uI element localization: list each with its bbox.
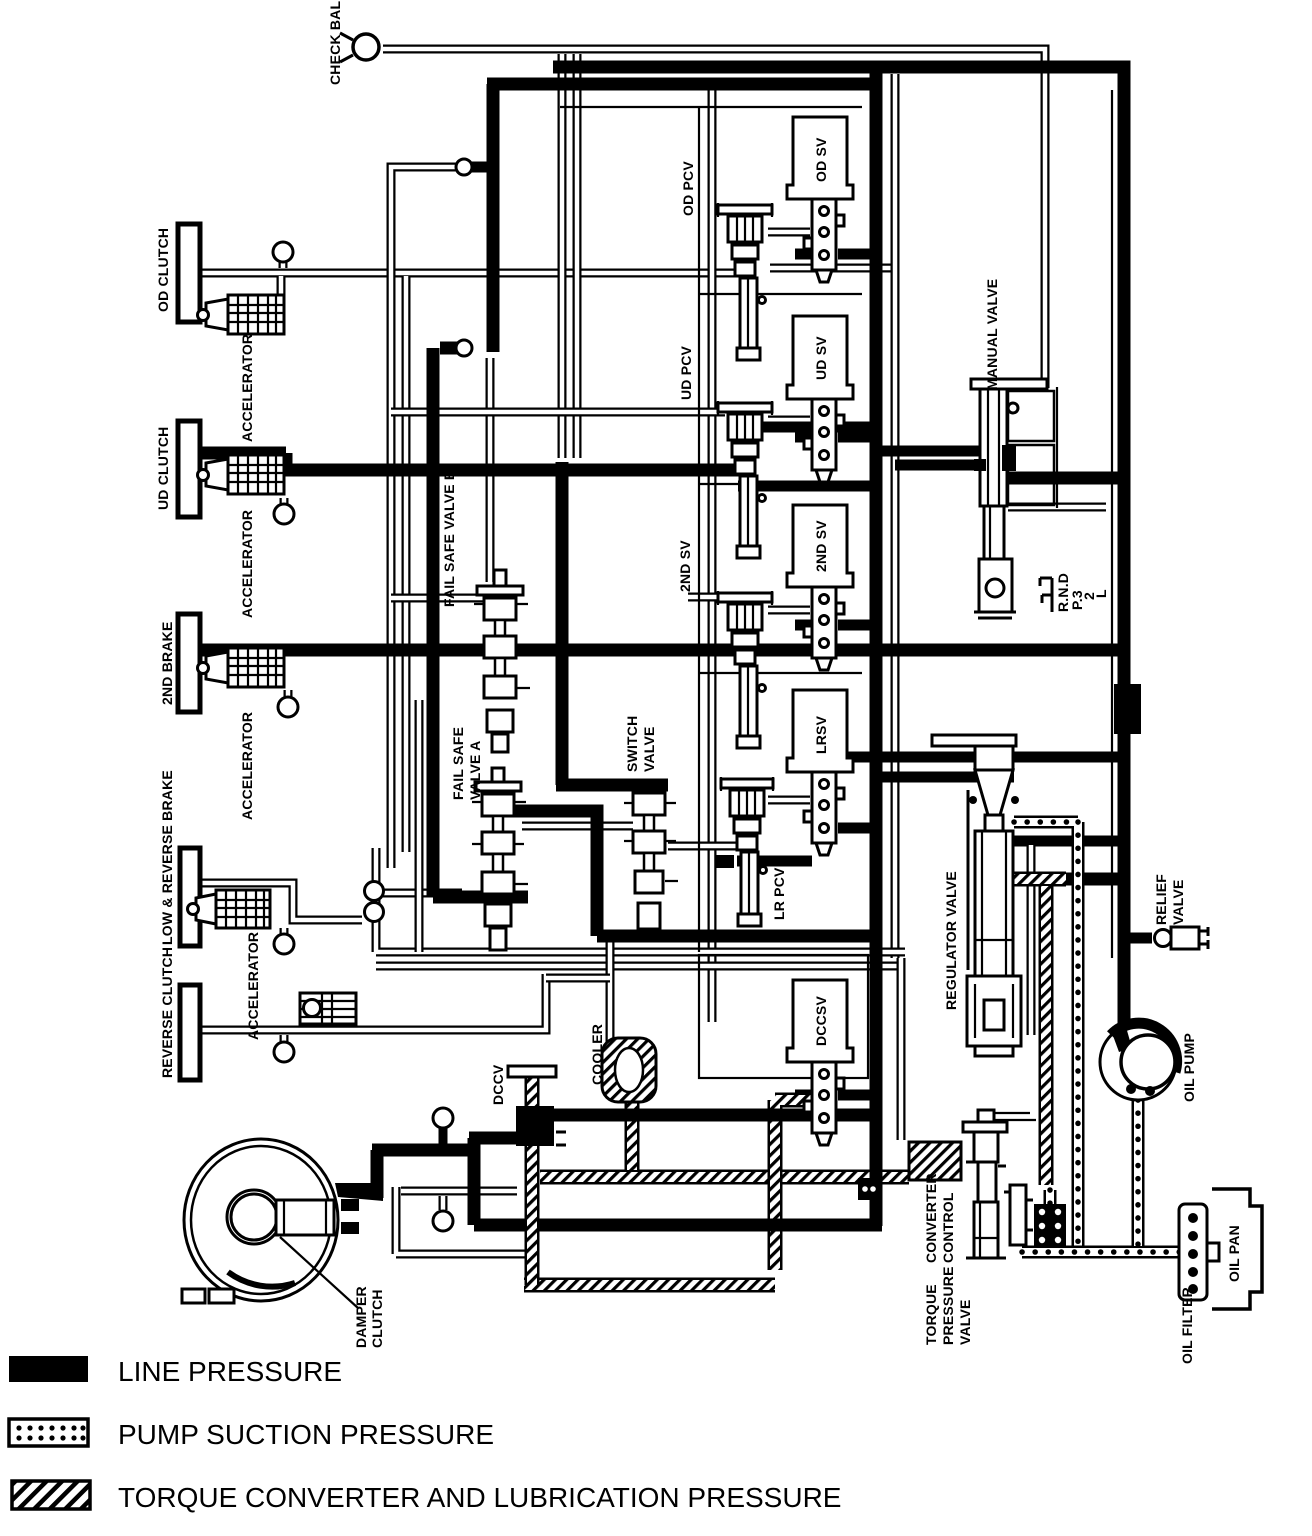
wire: channel down to converter control <box>897 958 906 1140</box>
dotted channel: converter control drop <box>1044 1190 1057 1246</box>
wire: relief valve stub <box>1124 933 1152 944</box>
wire: channel below junction ball 2 <box>486 358 495 582</box>
2ND SV solenoid <box>787 505 853 670</box>
accumulator reverse (small) <box>300 993 356 1024</box>
wire: valve region bottom second <box>376 962 905 971</box>
svg-text:CHECK BALL: CHECK BALL <box>327 0 343 85</box>
wire: line pressure top run T1 with right border drop <box>553 67 1124 1030</box>
wire: 2ND PCV to 2ND SV link <box>768 606 810 615</box>
low-reverse brake bar <box>180 848 200 946</box>
wire: extra vertical channel <box>415 700 424 952</box>
hatched channel: cooler link <box>625 1102 640 1170</box>
wire: low-reverse to fail safe A <box>383 889 462 898</box>
wire: UD PCV feed channel <box>391 408 725 417</box>
wire: manual valve lower right channel <box>1008 503 1106 512</box>
hatched channel: main lubrication run <box>540 1170 909 1185</box>
svg-text:CLUTCH: CLUTCH <box>369 1289 385 1348</box>
wire: manual valve region left wall <box>891 74 900 958</box>
wire: DCCSV plunger stubs <box>795 1090 876 1101</box>
regulator valve <box>932 735 1021 1056</box>
wire: manual valve lower feed <box>895 460 985 471</box>
relief valve <box>1155 927 1209 949</box>
legend swatch pump suction <box>9 1419 88 1446</box>
OD clutch bar <box>178 224 200 322</box>
svg-text:REGULATOR VALVE: REGULATOR VALVE <box>943 871 959 1010</box>
legend swatch line pressure <box>9 1356 88 1382</box>
svg-text:CONTROL: CONTROL <box>940 1192 956 1263</box>
svg-text:2ND BRAKE: 2ND BRAKE <box>159 622 175 705</box>
wire: UD clutch line pressure stub <box>200 453 286 464</box>
junction ball 2 <box>456 340 472 356</box>
svg-text:FAIL SAFE VALVE B: FAIL SAFE VALVE B <box>441 470 457 607</box>
svg-text:TORQUE: TORQUE <box>923 1284 939 1345</box>
LRSV solenoid <box>787 690 853 855</box>
wire: regulator to right border <box>1012 836 1124 847</box>
dotted channel: regulator suction <box>1014 822 1078 1246</box>
hatched box: converter control feed <box>909 1142 961 1180</box>
junction ball 1 <box>456 159 472 175</box>
hatched channel: regulator drop <box>1039 886 1054 1185</box>
wire: LR PCV to LRSV link <box>768 796 810 805</box>
UD SV solenoid <box>787 316 853 482</box>
svg-text:OD SV: OD SV <box>813 137 829 182</box>
oil pan <box>1212 1189 1262 1309</box>
svg-text:OIL PUMP: OIL PUMP <box>1181 1033 1197 1102</box>
accumulator low-reverse <box>188 890 271 928</box>
hatched channel: regulator cross <box>1014 872 1066 887</box>
wire: channel down to cooler <box>606 942 615 1050</box>
svg-text:REVERSE CLUTCH: REVERSE CLUTCH <box>159 947 175 1078</box>
hatched channel: bottom run <box>524 1278 775 1293</box>
wire: LR PCV to LRSV line <box>737 856 812 867</box>
wire: check-ball thin channel to manual valve <box>383 49 1045 388</box>
wire: UD PCV to mid line <box>738 481 876 492</box>
ball below converter channel <box>433 1196 453 1231</box>
svg-text:MANUAL VALVE: MANUAL VALVE <box>984 279 1000 390</box>
legend swatch torque converter <box>12 1481 90 1509</box>
svg-text:RELIEF: RELIEF <box>1153 874 1169 925</box>
svg-text:OD PCV: OD PCV <box>680 161 696 216</box>
hatched channel: vertical riser <box>775 1100 822 1270</box>
fail safe valve B <box>474 570 530 752</box>
svg-text:ACCELERATOR: ACCELERATOR <box>239 510 255 618</box>
wire: vertical channel pair B <box>573 54 582 458</box>
wire: 2ND SV plunger stubs <box>795 620 876 631</box>
svg-text:PRESSURE: PRESSURE <box>940 1266 956 1345</box>
wire: check ball junction elbow <box>440 342 470 355</box>
wire: UD clutch line pressure main <box>280 464 742 477</box>
wire: UD PCV to manual valve line <box>760 422 876 433</box>
switch valve <box>624 793 678 929</box>
ball pair low-reverse junction <box>365 882 384 922</box>
wire: 2ND brake line pressure <box>200 644 1124 657</box>
accumulator UD <box>198 455 285 494</box>
valve body group frame <box>560 107 868 1078</box>
2ND PCV <box>718 591 772 748</box>
wire: valve region frame left and bottom <box>376 848 905 952</box>
ball converter line <box>433 1108 453 1148</box>
dotted channel: pump drop <box>1132 1100 1145 1246</box>
wire: UD SV plunger stubs <box>795 432 876 443</box>
wire: bottom return line pressure <box>474 1219 882 1232</box>
UD PCV <box>718 401 772 558</box>
wire: UD PCV to UD SV link <box>768 416 810 425</box>
fail safe valve A <box>472 768 528 950</box>
check ball <box>340 33 379 62</box>
wire: manual valve to right border <box>1005 472 1124 485</box>
svg-text:FAIL SAFE: FAIL SAFE <box>450 727 466 800</box>
line pressure overprint at hatch crossings <box>618 1115 876 1226</box>
wire: ball1 elbow <box>470 162 491 173</box>
manual valve <box>971 379 1057 618</box>
wire: OD SV plunger stubs <box>795 249 876 260</box>
oil pump <box>1100 1023 1177 1100</box>
svg-text:UD CLUTCH: UD CLUTCH <box>155 427 171 510</box>
dotted channel: oil pan suction <box>1022 1246 1184 1259</box>
svg-text:L: L <box>1093 589 1109 598</box>
DCCSV solenoid <box>787 980 853 1145</box>
svg-text:OIL FILTER: OIL FILTER <box>1179 1287 1195 1364</box>
ball 2ND accumulator <box>278 690 298 717</box>
2ND brake bar <box>178 614 200 712</box>
DCCV valve <box>508 1066 566 1146</box>
wire: regulator sleeve channel <box>1027 845 1036 1035</box>
svg-text:DAMPER: DAMPER <box>353 1286 369 1348</box>
wire: regulator top feed <box>876 772 1014 783</box>
wire: reverse clutch channel <box>198 974 546 1030</box>
svg-text:TORQUE CONVERTER AND LUBRICATI: TORQUE CONVERTER AND LUBRICATION PRESSUR… <box>118 1482 841 1513</box>
ball OD accumulator <box>273 242 293 268</box>
svg-text:UD SV: UD SV <box>813 336 829 380</box>
wire: reverse to cooler link channel <box>546 974 610 983</box>
wire: OD PCV to manual valve region channel <box>770 264 895 273</box>
svg-text:VALVE: VALVE <box>957 1299 973 1345</box>
svg-text:VALVE: VALVE <box>1170 879 1186 925</box>
wire: bottom line pressure run <box>517 1109 876 1122</box>
svg-text:ACCELERATOR: ACCELERATOR <box>239 712 255 820</box>
ball reverse accumulator <box>274 1035 294 1062</box>
wire: torque converter right channel <box>396 1187 526 1254</box>
wire: second drop channel <box>402 276 411 852</box>
wire: vertical line pressure to switch valve <box>556 462 668 785</box>
svg-text:CONVERTER: CONVERTER <box>923 1173 939 1263</box>
svg-text:VALVE A: VALVE A <box>467 741 483 800</box>
wire: low-reverse brake channel <box>198 883 362 920</box>
wire: vertical channel pair A <box>558 54 567 458</box>
gear selector bracket <box>1040 578 1052 612</box>
wire: LRSV plunger to mid line <box>838 823 876 834</box>
svg-text:OD CLUTCH: OD CLUTCH <box>155 228 171 312</box>
wire: torque converter line pressure <box>372 1138 519 1225</box>
wire: switch valve lower circuit <box>500 811 876 936</box>
UD clutch bar <box>178 421 200 517</box>
svg-text:PUMP SUCTION PRESSURE: PUMP SUCTION PRESSURE <box>118 1419 494 1450</box>
svg-text:LRSV: LRSV <box>813 715 829 754</box>
line pressure border boss <box>1114 684 1141 734</box>
wire: OD clutch channel <box>198 269 742 278</box>
svg-text:DCCSV: DCCSV <box>813 996 829 1046</box>
dotted block: suction junction <box>1034 1204 1066 1248</box>
wire: fail safe A bottom link <box>433 348 528 897</box>
wire: fail safe A to switch valve channel <box>522 822 633 831</box>
wire: right mid cross line <box>806 752 1124 763</box>
wire: 2ND PCV feed channel <box>391 594 483 603</box>
reverse clutch bar <box>180 985 200 1080</box>
ball low-reverse accumulator <box>274 928 294 954</box>
wire: switch valve to LR PCV channel <box>668 842 737 851</box>
svg-text:2ND SV: 2ND SV <box>677 540 693 592</box>
wire: OD PCV to OD SV link <box>768 228 810 237</box>
torque pressure valve <box>1004 1185 1033 1245</box>
accumulator OD <box>198 295 285 334</box>
svg-text:COOLER: COOLER <box>589 1024 605 1085</box>
svg-text:LR PCV: LR PCV <box>771 867 787 920</box>
accumulator 2ND <box>198 648 285 687</box>
converter control valve <box>963 1110 1036 1258</box>
wire: lower cross to right border <box>1066 873 1124 886</box>
svg-text:LINE PRESSURE: LINE PRESSURE <box>118 1356 342 1387</box>
svg-text:ACCELERATOR: ACCELERATOR <box>245 932 261 1040</box>
LR PCV left port stub <box>716 855 734 868</box>
wire: check ball drop channel left <box>391 167 461 868</box>
wire: line pressure top run T2 with mid drop <box>487 67 876 1226</box>
ball UD accumulator <box>274 498 294 524</box>
svg-text:UD PCV: UD PCV <box>678 345 694 400</box>
svg-text:OIL PAN: OIL PAN <box>1226 1225 1242 1282</box>
OD SV solenoid <box>787 117 853 282</box>
cooler <box>602 1038 656 1102</box>
svg-text:DCCV: DCCV <box>490 1064 506 1105</box>
svg-text:LOW & REVERSE BRAKE: LOW & REVERSE BRAKE <box>159 770 175 945</box>
wire: OD accumulator branch <box>277 276 286 298</box>
wire: long vertical channel mid <box>708 90 717 1022</box>
hatched channel: DCCV vertical <box>525 1078 540 1285</box>
OD PCV <box>718 203 772 360</box>
svg-text:ACCELERATOR: ACCELERATOR <box>239 334 255 442</box>
LR PCV <box>721 777 773 926</box>
svg-text:SWITCH: SWITCH <box>624 716 640 772</box>
dotted block: small junction <box>858 1178 880 1200</box>
wedge at converter rim <box>335 1183 383 1201</box>
svg-text:VALVE: VALVE <box>641 726 657 772</box>
oil filter <box>1179 1204 1219 1300</box>
svg-text:2ND SV: 2ND SV <box>813 520 829 572</box>
torque converter <box>182 1139 359 1308</box>
wire: manual valve region right wall <box>1111 90 1113 958</box>
wire: manual valve feed line <box>876 446 1003 457</box>
